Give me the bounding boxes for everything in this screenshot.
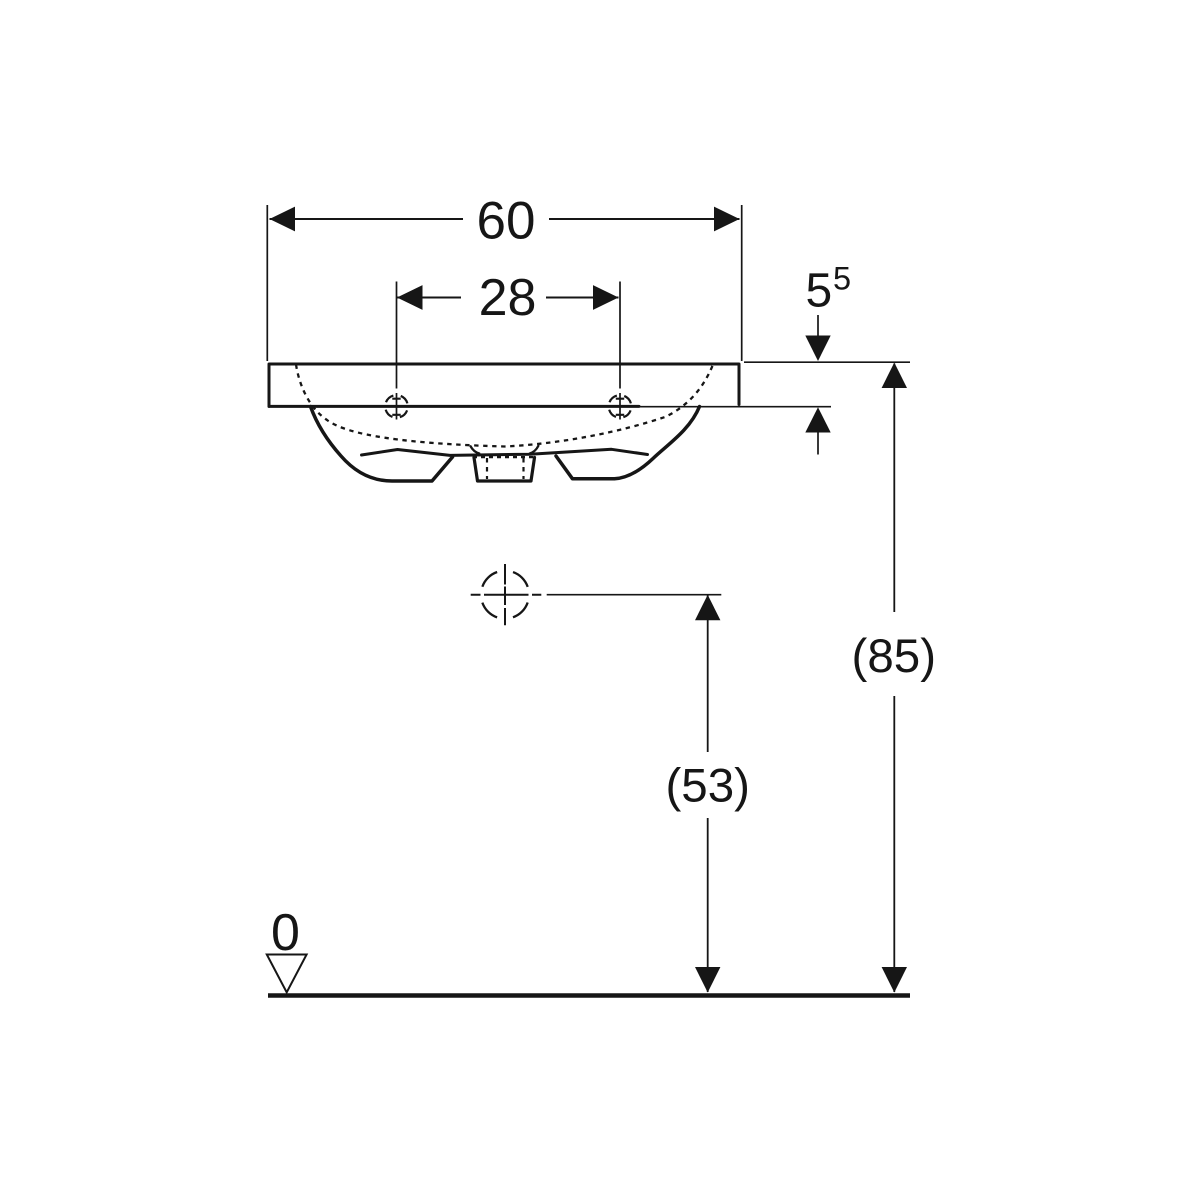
dim 60 text	[463, 196, 549, 242]
svg-text:(85): (85)	[852, 630, 936, 683]
dim 28 text	[461, 274, 546, 320]
dim 60 line	[270, 218, 740, 220]
tap hole right ticks	[616, 399, 624, 415]
tap hole right dashed circle	[609, 395, 632, 418]
dim 28 line	[397, 296, 619, 298]
sump hook left	[471, 446, 480, 453]
far bottom contour line	[362, 449, 648, 455]
connection point dashed circle	[481, 571, 529, 619]
bowl outer curve left with flat foot bottom	[311, 407, 453, 482]
dim (85) bottom arrow	[882, 967, 907, 993]
tap hole left dashed circle	[385, 395, 408, 418]
dim (85) line	[893, 364, 895, 993]
dim 5.5 upper arrow	[817, 315, 819, 340]
drain hidden inner lines dashed	[487, 458, 524, 479]
connection point centerline vertical	[504, 564, 506, 625]
dim (85) text	[851, 612, 937, 696]
dim (53) top arrow	[695, 595, 720, 621]
dim (53) text	[662, 752, 752, 818]
drain hidden top edge dashed	[473, 456, 535, 458]
dim (53) line	[707, 596, 709, 993]
tap hole left ticks	[392, 399, 400, 415]
tap hole left centerline vertical	[396, 282, 398, 420]
svg-text:(53): (53)	[665, 759, 749, 812]
top extension line at rim level	[744, 361, 910, 363]
dim 60 extension line right	[741, 205, 743, 361]
inner basin dashed arc	[296, 365, 713, 447]
svg-text:5: 5	[833, 261, 851, 297]
connection point centerline horizontal	[471, 594, 542, 596]
dim 60 arrow right	[714, 207, 740, 232]
drain trap outline	[474, 458, 535, 482]
dim 5.5 lower arrow	[805, 407, 830, 432]
ground line	[268, 993, 910, 998]
dim 60 arrow left	[270, 207, 296, 232]
rim bottom extension line thin segment	[639, 406, 831, 408]
svg-text:60: 60	[477, 191, 536, 250]
dim (53) extension line horizontal	[547, 594, 722, 596]
sump hook right	[530, 446, 539, 454]
dim (85) top arrow	[882, 363, 907, 389]
washbasin rim bottom edge thick segment	[269, 405, 639, 408]
dim 28 arrow right	[593, 285, 619, 310]
datum triangle	[267, 955, 307, 993]
svg-text:5: 5	[806, 265, 833, 318]
dim 28 arrow left	[397, 285, 423, 310]
svg-text:0: 0	[271, 904, 300, 962]
right foot and bowl outer curve right	[556, 407, 700, 479]
tap hole right centerline vertical	[619, 282, 621, 420]
svg-text:28: 28	[479, 269, 537, 327]
dim 60 extension line left	[266, 205, 268, 361]
washbasin rim rectangle (top, left, right edges)	[269, 364, 739, 406]
dim (53) bottom arrow	[695, 967, 720, 993]
